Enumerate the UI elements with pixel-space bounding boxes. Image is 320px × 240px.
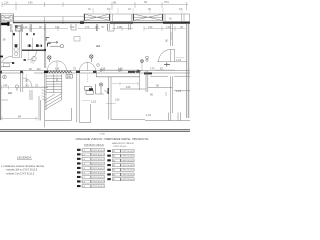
- corner L marks: [48, 43, 51, 46]
- svg-text:CYKY 3Cx1,5: CYKY 3Cx1,5: [92, 172, 105, 174]
- interior vertical wall x107: [108, 24, 110, 30]
- lamp in left room: [15, 85, 18, 88]
- svg-text:84: 84: [144, 0, 148, 4]
- box label above stairs: [66, 75, 73, 79]
- stairs: [46, 74, 62, 98]
- svg-text:CYKY 3Cx2,5: CYKY 3Cx2,5: [113, 146, 127, 148]
- interior vertical wall x96: [96, 24, 98, 31]
- legend table right rows: [107, 150, 134, 182]
- svg-text:110: 110: [55, 67, 60, 71]
- svg-text:CYKY 3Cx2,5: CYKY 3Cx2,5: [121, 151, 134, 153]
- svg-text:160: 160: [126, 85, 131, 89]
- door arc from x23: [23, 78, 32, 87]
- svg-text:140: 140: [23, 25, 28, 29]
- window W2: [84, 14, 110, 21]
- small circle symbol x147: [146, 56, 149, 59]
- svg-text:270: 270: [85, 25, 90, 29]
- bottom rooms: [1, 118, 39, 120]
- svg-text:CYKY 3Cx1,5: CYKY 3Cx1,5: [92, 177, 105, 179]
- svg-text:240: 240: [148, 25, 153, 29]
- dashed verticals under domes: [56, 75, 58, 85]
- small dark dots row: [13, 33, 15, 35]
- svg-text:754: 754: [164, 0, 169, 4]
- corridor pier x20: [20, 71, 23, 73]
- legend table left rows: [77, 149, 105, 189]
- outer face pier right of W3: [163, 14, 190, 21]
- svg-text:CYKY 3Cx1,5: CYKY 3Cx1,5: [92, 159, 105, 161]
- svg-text:CYKY 3Cx2,5: CYKY 3Cx2,5: [121, 165, 134, 167]
- small box under band: [15, 26, 21, 32]
- lamp on dome2: [90, 55, 93, 58]
- corridor dim labels: [55, 67, 163, 71]
- interior vertical wall x171: [171, 24, 173, 46]
- svg-text:ZASUVKOVY OBVOD: ZASUVKOVY OBVOD: [112, 142, 134, 145]
- svg-text:CYKY 3Cx2,5: CYKY 3Cx2,5: [121, 179, 134, 181]
- wall pair x171 lower: [171, 76, 173, 113]
- svg-text:110: 110: [55, 25, 60, 29]
- svg-text:130: 130: [166, 25, 171, 29]
- wall pier right of W3: [163, 22, 190, 24]
- svg-text:CYKY 3Cx2,5: CYKY 3Cx2,5: [121, 156, 134, 158]
- wall pair x77: [77, 74, 79, 122]
- svg-text:- vedenie 3 za CYKY 3Cx1,5: - vedenie 3 za CYKY 3Cx1,5: [5, 173, 35, 175]
- thin vertical x32: [31, 38, 33, 50]
- svg-text:240: 240: [3, 84, 8, 88]
- svg-text:114: 114: [4, 0, 9, 4]
- wall y89 center-right: [120, 88, 146, 90]
- stairs winder diagonals: [45, 94, 62, 110]
- svg-text:146: 146: [28, 0, 33, 4]
- svg-text:CYKY 3Cx2,5: CYKY 3Cx2,5: [121, 160, 134, 162]
- dimension labels top: [4, 0, 169, 4]
- socket marks on wall: [29, 44, 31, 47]
- top exterior wall band: [13, 22, 190, 24]
- svg-text:1 750: 1 750: [100, 133, 106, 135]
- lamp on dome1: [48, 56, 51, 59]
- left lower door arc: [2, 56, 12, 62]
- svg-text:OZNACENIE VODICOV - PREPOJENI: OZNACENIE VODICOV - PREPOJENIE SVETEL. O…: [76, 138, 150, 141]
- door dome 2: [80, 62, 96, 70]
- stair shaft left wall: [45, 73, 46, 128]
- right exterior wall: [187, 23, 189, 118]
- svg-text:- zasuvky 16A so CYKY 3Cx2,5: - zasuvky 16A so CYKY 3Cx2,5: [5, 169, 38, 172]
- wall pair x110: [109, 77, 111, 120]
- wall pier left of W2: [80, 21, 84, 24]
- svg-text:CYKY 3Cx2,5: CYKY 3Cx2,5: [121, 170, 134, 172]
- svg-text:100: 100: [70, 25, 75, 29]
- room wall y87: [23, 86, 48, 88]
- L wall + lamp at x95: [96, 84, 104, 94]
- svg-text:1. instalovane tesnenie obvodo: 1. instalovane tesnenie obvodove zasuvky: [1, 165, 45, 168]
- wall pair x146 right: [146, 71, 148, 92]
- window W3: [133, 14, 163, 21]
- door dome 1: [48, 61, 67, 70]
- hatch zigzag corridor: [46, 71, 72, 73]
- WC room left fixtures: [13, 27, 21, 58]
- svg-text:1.10: 1.10: [176, 58, 182, 62]
- fixture circle mid room: [32, 56, 36, 60]
- right rooms walls: [150, 75, 190, 77]
- svg-text:CYKY 3Cx1,5: CYKY 3Cx1,5: [92, 163, 105, 165]
- left room small labels: [3, 38, 41, 49]
- door arc below wall: [28, 51, 37, 60]
- interior vertical wall x30: [30, 24, 32, 32]
- top dimension line: [2, 4, 188, 6]
- interior dim line row2: [16, 28, 185, 30]
- svg-text:AA: AA: [8, 91, 12, 95]
- wall pier between W2 W3: [110, 22, 133, 24]
- svg-text:CYKY 3Cx1,5: CYKY 3Cx1,5: [92, 168, 105, 170]
- door notch in top wall 2: [108, 24, 115, 31]
- verticals under band left: [11, 24, 12, 32]
- bottom separator double line: [0, 129, 190, 131]
- dimension ticks top: [2, 2, 187, 10]
- exterior wall ribbon W1-W2: [14, 16, 85, 18]
- svg-text:160: 160: [67, 75, 72, 79]
- top-right door: [170, 32, 172, 40]
- marker symbols room 2: [46, 38, 49, 41]
- interior vertical wall x44: [44, 24, 46, 68]
- secondary dim labels: [88, 7, 182, 11]
- outer face pier W2-W3: [110, 14, 133, 21]
- svg-text:98: 98: [113, 0, 117, 4]
- small circle left below corridor: [3, 75, 7, 79]
- svg-text:110: 110: [37, 68, 42, 71]
- svg-text:CYKY 3Cx1,5: CYKY 3Cx1,5: [92, 186, 105, 188]
- interior wall y50: [22, 49, 46, 51]
- left exterior wall: [0, 13, 2, 120]
- svg-text:1.10: 1.10: [91, 99, 97, 103]
- corridor top wall: [0, 70, 190, 72]
- svg-text:CYKY 3Cx2,5: CYKY 3Cx2,5: [121, 174, 134, 176]
- corridor lower-right walls: [96, 76, 140, 78]
- svg-text:CYKY 3Cx1,5: CYKY 3Cx1,5: [92, 150, 105, 152]
- wall pair x20: [21, 71, 23, 92]
- svg-text:CYKY 3Cx1,5: CYKY 3Cx1,5: [92, 181, 105, 183]
- svg-text:1.10: 1.10: [146, 113, 152, 117]
- window W1 sill black bar: [0, 23, 10, 26]
- secondary dim ticks: [93, 8, 182, 13]
- door notch in top wall 1: [71, 24, 76, 30]
- svg-text:CYKY 3Cx1,5: CYKY 3Cx1,5: [92, 154, 105, 156]
- svg-text:LEGENDA: LEGENDA: [17, 156, 31, 160]
- interior vertical wall x21: [21, 24, 22, 58]
- interior vertical wall x129: [129, 24, 131, 30]
- lamp stem x142: [141, 63, 143, 72]
- svg-text:148: 148: [117, 25, 122, 29]
- window W1 left: [1, 14, 14, 22]
- box labels right of stairs: [85, 87, 92, 91]
- corridor lamp circles: [100, 69, 102, 71]
- svg-text:210: 210: [115, 97, 120, 101]
- svg-text:170: 170: [150, 67, 155, 71]
- wall pair x30 lower: [30, 90, 32, 100]
